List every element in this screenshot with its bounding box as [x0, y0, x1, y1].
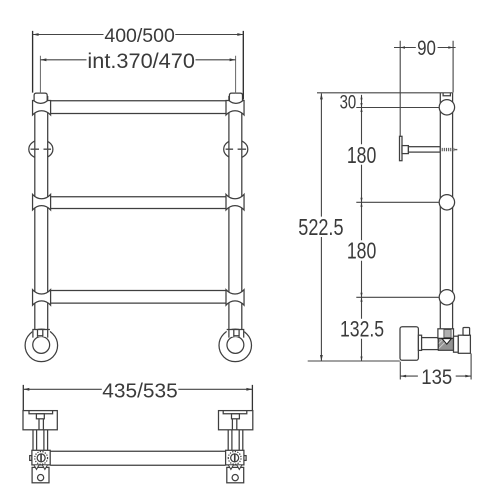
dimension 522.5	[298, 93, 343, 361]
svg-text:180: 180	[347, 142, 377, 168]
compression nut	[438, 329, 454, 339]
svg-text:400/500: 400/500	[104, 26, 175, 47]
valve body pipe	[422, 338, 439, 350]
connector cap square	[463, 328, 470, 336]
valve cone housing	[438, 338, 453, 350]
side post	[440, 93, 452, 329]
valve ring	[454, 336, 459, 352]
svg-text:522.5: 522.5	[298, 214, 343, 240]
rail end circle 2	[439, 195, 454, 210]
side extension lines	[308, 93, 453, 361]
dimension chain 30/180/180/132.5	[340, 92, 385, 361]
rail end circle 1	[439, 100, 454, 115]
dimension 90	[394, 37, 456, 136]
bottom left foot	[23, 411, 57, 483]
svg-text:30: 30	[340, 92, 357, 113]
rail tube 1	[49, 101, 228, 114]
bottom rail tube	[50, 451, 225, 465]
left post column	[25, 93, 58, 362]
rail tube 2	[49, 197, 228, 209]
rail end circle 3	[439, 290, 454, 305]
svg-text:int.370/470: int.370/470	[87, 50, 195, 73]
valve knob	[400, 327, 418, 361]
svg-text:90: 90	[417, 37, 436, 60]
dimension int.370/470	[40, 50, 235, 94]
wall connector block	[458, 335, 470, 353]
valve stem	[418, 335, 421, 350]
dimension 435/535	[23, 381, 252, 411]
bracket screw (hidden)	[440, 148, 457, 151]
svg-text:435/535: 435/535	[102, 381, 178, 403]
right post column	[219, 93, 252, 362]
dimension 135	[400, 354, 471, 389]
svg-text:180: 180	[347, 237, 377, 263]
bottom right foot	[218, 411, 252, 483]
svg-text:132.5: 132.5	[340, 317, 384, 342]
svg-text:135: 135	[421, 366, 452, 389]
wall bracket plate	[400, 136, 441, 160]
rail tube 3	[49, 291, 228, 304]
dimension 400/500	[33, 26, 244, 100]
